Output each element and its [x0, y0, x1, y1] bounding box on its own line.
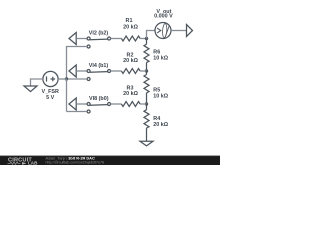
wire pole to R3: [111, 103, 122, 105]
voltmeter arrow: [157, 28, 161, 33]
ground (rotated, left-pointing) row b2: [69, 33, 76, 45]
wire lower throw b1 to rail: [67, 78, 88, 80]
ground left: [24, 86, 37, 92]
wire rail down: [66, 79, 68, 112]
wire pole to R1: [111, 38, 122, 40]
svg-text:20 kΩ: 20 kΩ: [123, 24, 138, 30]
node junction V_out top: [145, 37, 148, 40]
switch VI4 pole terminal: [108, 70, 111, 73]
svg-text:10 kΩ: 10 kΩ: [153, 56, 168, 62]
voltage source V_FSR circle: [43, 71, 58, 86]
switch VI4 throw terminal: [87, 70, 90, 73]
wire R2 to node: [140, 70, 146, 72]
node junction R5/R4/R3: [145, 102, 148, 105]
switch VI8 lever: [90, 104, 108, 107]
switch VI4 lower throw terminal: [87, 78, 90, 81]
wire lower throw b2 to rail: [67, 47, 88, 80]
ground (rotated) row b0: [69, 98, 76, 110]
footer bar: [0, 156, 220, 166]
V_FSR minus bar: [46, 76, 48, 81]
resistor R5 vertical: [146, 71, 148, 75]
V_FSR plus sign: [51, 78, 56, 80]
svg-text:5 V: 5 V: [46, 95, 54, 101]
switch VI2 pole terminal: [108, 37, 111, 40]
wire node up to voltmeter: [147, 31, 156, 39]
resistor R6 vertical: [146, 39, 148, 45]
wire source to rail: [58, 78, 66, 80]
resistor R4 vertical: [146, 104, 148, 110]
svg-text:20 kΩ: 20 kΩ: [153, 122, 168, 128]
output flag V_out: [187, 25, 193, 37]
resistor R3: [121, 102, 140, 107]
svg-text:10 kΩ: 10 kΩ: [153, 94, 168, 100]
wire triangle to throw, row b2: [76, 38, 87, 40]
wire source left to ground: [31, 79, 43, 86]
voltmeter VM1 circle: [155, 23, 171, 39]
resistor R1: [121, 36, 140, 41]
wire pole to R2: [111, 70, 122, 72]
svg-text:R1: R1: [126, 18, 133, 24]
node junction rail/source: [65, 77, 68, 80]
node junction R6/R5/R2: [145, 69, 148, 72]
switch VI8 lower throw terminal: [87, 110, 90, 113]
svg-text:VI2 (b2): VI2 (b2): [89, 30, 109, 36]
wire triangle to throw, row b0: [76, 103, 87, 105]
ground (rotated) row b1: [69, 65, 76, 77]
svg-text:http://circuitlab.com/cw2hqk63: http://circuitlab.com/cw2hqk63t7e76: [46, 161, 105, 165]
wire lower throw b0 to rail: [67, 111, 88, 113]
wire voltmeter to flag: [171, 30, 187, 32]
wire triangle to throw, row b1: [76, 70, 87, 72]
wire R1 to node V_out: [140, 38, 146, 40]
switch VI8 throw terminal: [87, 103, 90, 106]
svg-text:LAB: LAB: [28, 161, 38, 165]
svg-text:VI4 (b1): VI4 (b1): [89, 63, 109, 69]
switch VI2 throw terminal (top): [87, 37, 90, 40]
switch VI8 pole terminal: [108, 103, 111, 106]
svg-text:VI8 (b0): VI8 (b0): [89, 96, 109, 102]
voltmeter gauge: [162, 23, 167, 37]
switch VI4 lever: [90, 71, 108, 74]
ground bottom: [140, 141, 153, 146]
svg-text:0.000 V: 0.000 V: [154, 14, 173, 20]
resistor R2: [121, 69, 140, 74]
switch VI2 lever: [90, 38, 108, 41]
voltmeter needle: [166, 25, 170, 36]
wire R3 to node: [140, 103, 146, 105]
switch VI2 lower throw terminal: [87, 45, 90, 48]
svg-text:20 kΩ: 20 kΩ: [123, 91, 138, 97]
svg-text:20 kΩ: 20 kΩ: [123, 58, 138, 64]
